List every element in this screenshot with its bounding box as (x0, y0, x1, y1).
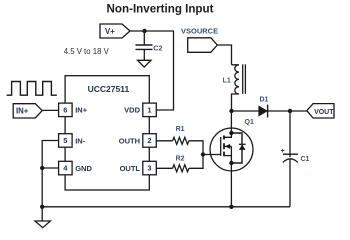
ground under C2 (138, 60, 151, 67)
node source junction (229, 161, 233, 165)
pin 5 (59, 134, 73, 148)
svg-text:3: 3 (147, 164, 151, 173)
svg-text:L1: L1 (223, 77, 231, 84)
wire V+ to VDD corner (130, 31, 174, 110)
svg-text:Non-Inverting Input: Non-Inverting Input (107, 3, 214, 16)
svg-text:5: 5 (63, 136, 67, 145)
source lead (224, 155, 231, 157)
wire VSOURCE to L1 (217, 45, 231, 65)
svg-text:IN-: IN- (75, 136, 86, 145)
node Q1 source rail junction (229, 205, 233, 209)
resistor R1 (156, 126, 203, 155)
wire main node to D1 and VOUT (232, 110, 307, 112)
inductor L1 (223, 64, 246, 111)
flag VSOURCE (188, 38, 218, 53)
svg-text:V+: V+ (105, 27, 115, 36)
capacitor C1 (281, 111, 310, 207)
flag V+ (100, 24, 130, 38)
body diode branch (231, 133, 242, 163)
resistor R2 (156, 155, 203, 172)
wire pin 4 to ground bus (42, 167, 58, 169)
svg-text:VSOURCE: VSOURCE (181, 27, 218, 36)
capacitor C2 (136, 31, 163, 60)
svg-text:R2: R2 (176, 155, 185, 162)
svg-text:GND: GND (75, 164, 92, 173)
svg-text:C1: C1 (301, 156, 310, 163)
pin 1 (143, 103, 157, 117)
svg-text:C2: C2 (153, 46, 162, 53)
svg-text:D1: D1 (260, 97, 269, 104)
svg-text:4.5 V to 18 V: 4.5 V to 18 V (64, 47, 110, 56)
svg-text:Q1: Q1 (245, 119, 254, 126)
svg-text:IN+: IN+ (75, 106, 88, 115)
pin 4 (59, 161, 73, 175)
pin 2 (143, 134, 157, 148)
diode D1 (259, 97, 269, 118)
svg-text:6: 6 (63, 106, 67, 115)
flag VOUT (307, 104, 334, 118)
svg-text:1: 1 (147, 106, 151, 115)
wire gate lead (203, 154, 221, 156)
node V+ / C2 junction (142, 29, 146, 33)
gate bar (220, 137, 222, 156)
svg-text:R1: R1 (176, 126, 185, 133)
node L1/Q1 drain junction (229, 109, 233, 113)
body arrow (225, 145, 232, 147)
wire IN+ flag to pin 6 (42, 109, 58, 111)
op-amp/IC body UCC27511 (65, 76, 149, 190)
node rail left junction (40, 205, 44, 209)
svg-text:VDD: VDD (124, 106, 140, 115)
svg-text:2: 2 (147, 136, 151, 145)
svg-text:OUTL: OUTL (120, 164, 141, 173)
node drain junction (229, 131, 233, 135)
svg-text:UCC27511: UCC27511 (88, 84, 130, 94)
svg-text:OUTH: OUTH (119, 136, 140, 145)
channel segments (223, 135, 225, 139)
ground symbol bottom left (35, 221, 50, 228)
wire pin 5 to ground bus (42, 141, 58, 222)
flag IN+ (13, 104, 42, 118)
ground rail (42, 206, 290, 208)
node gate junction (201, 152, 205, 156)
node pin4 junction (40, 166, 44, 170)
svg-text:VOUT: VOUT (314, 109, 334, 116)
node D1/C1/VOUT junction (288, 109, 292, 113)
wire Q1 source to ground rail (230, 163, 232, 207)
transistor Q1 (N-MOSFET with body diode) (210, 111, 253, 171)
drain lead (224, 111, 231, 137)
square wave input symbol (7, 82, 57, 96)
pin 3 (143, 161, 157, 175)
pin 6 (59, 103, 73, 117)
svg-text:IN+: IN+ (16, 107, 29, 116)
